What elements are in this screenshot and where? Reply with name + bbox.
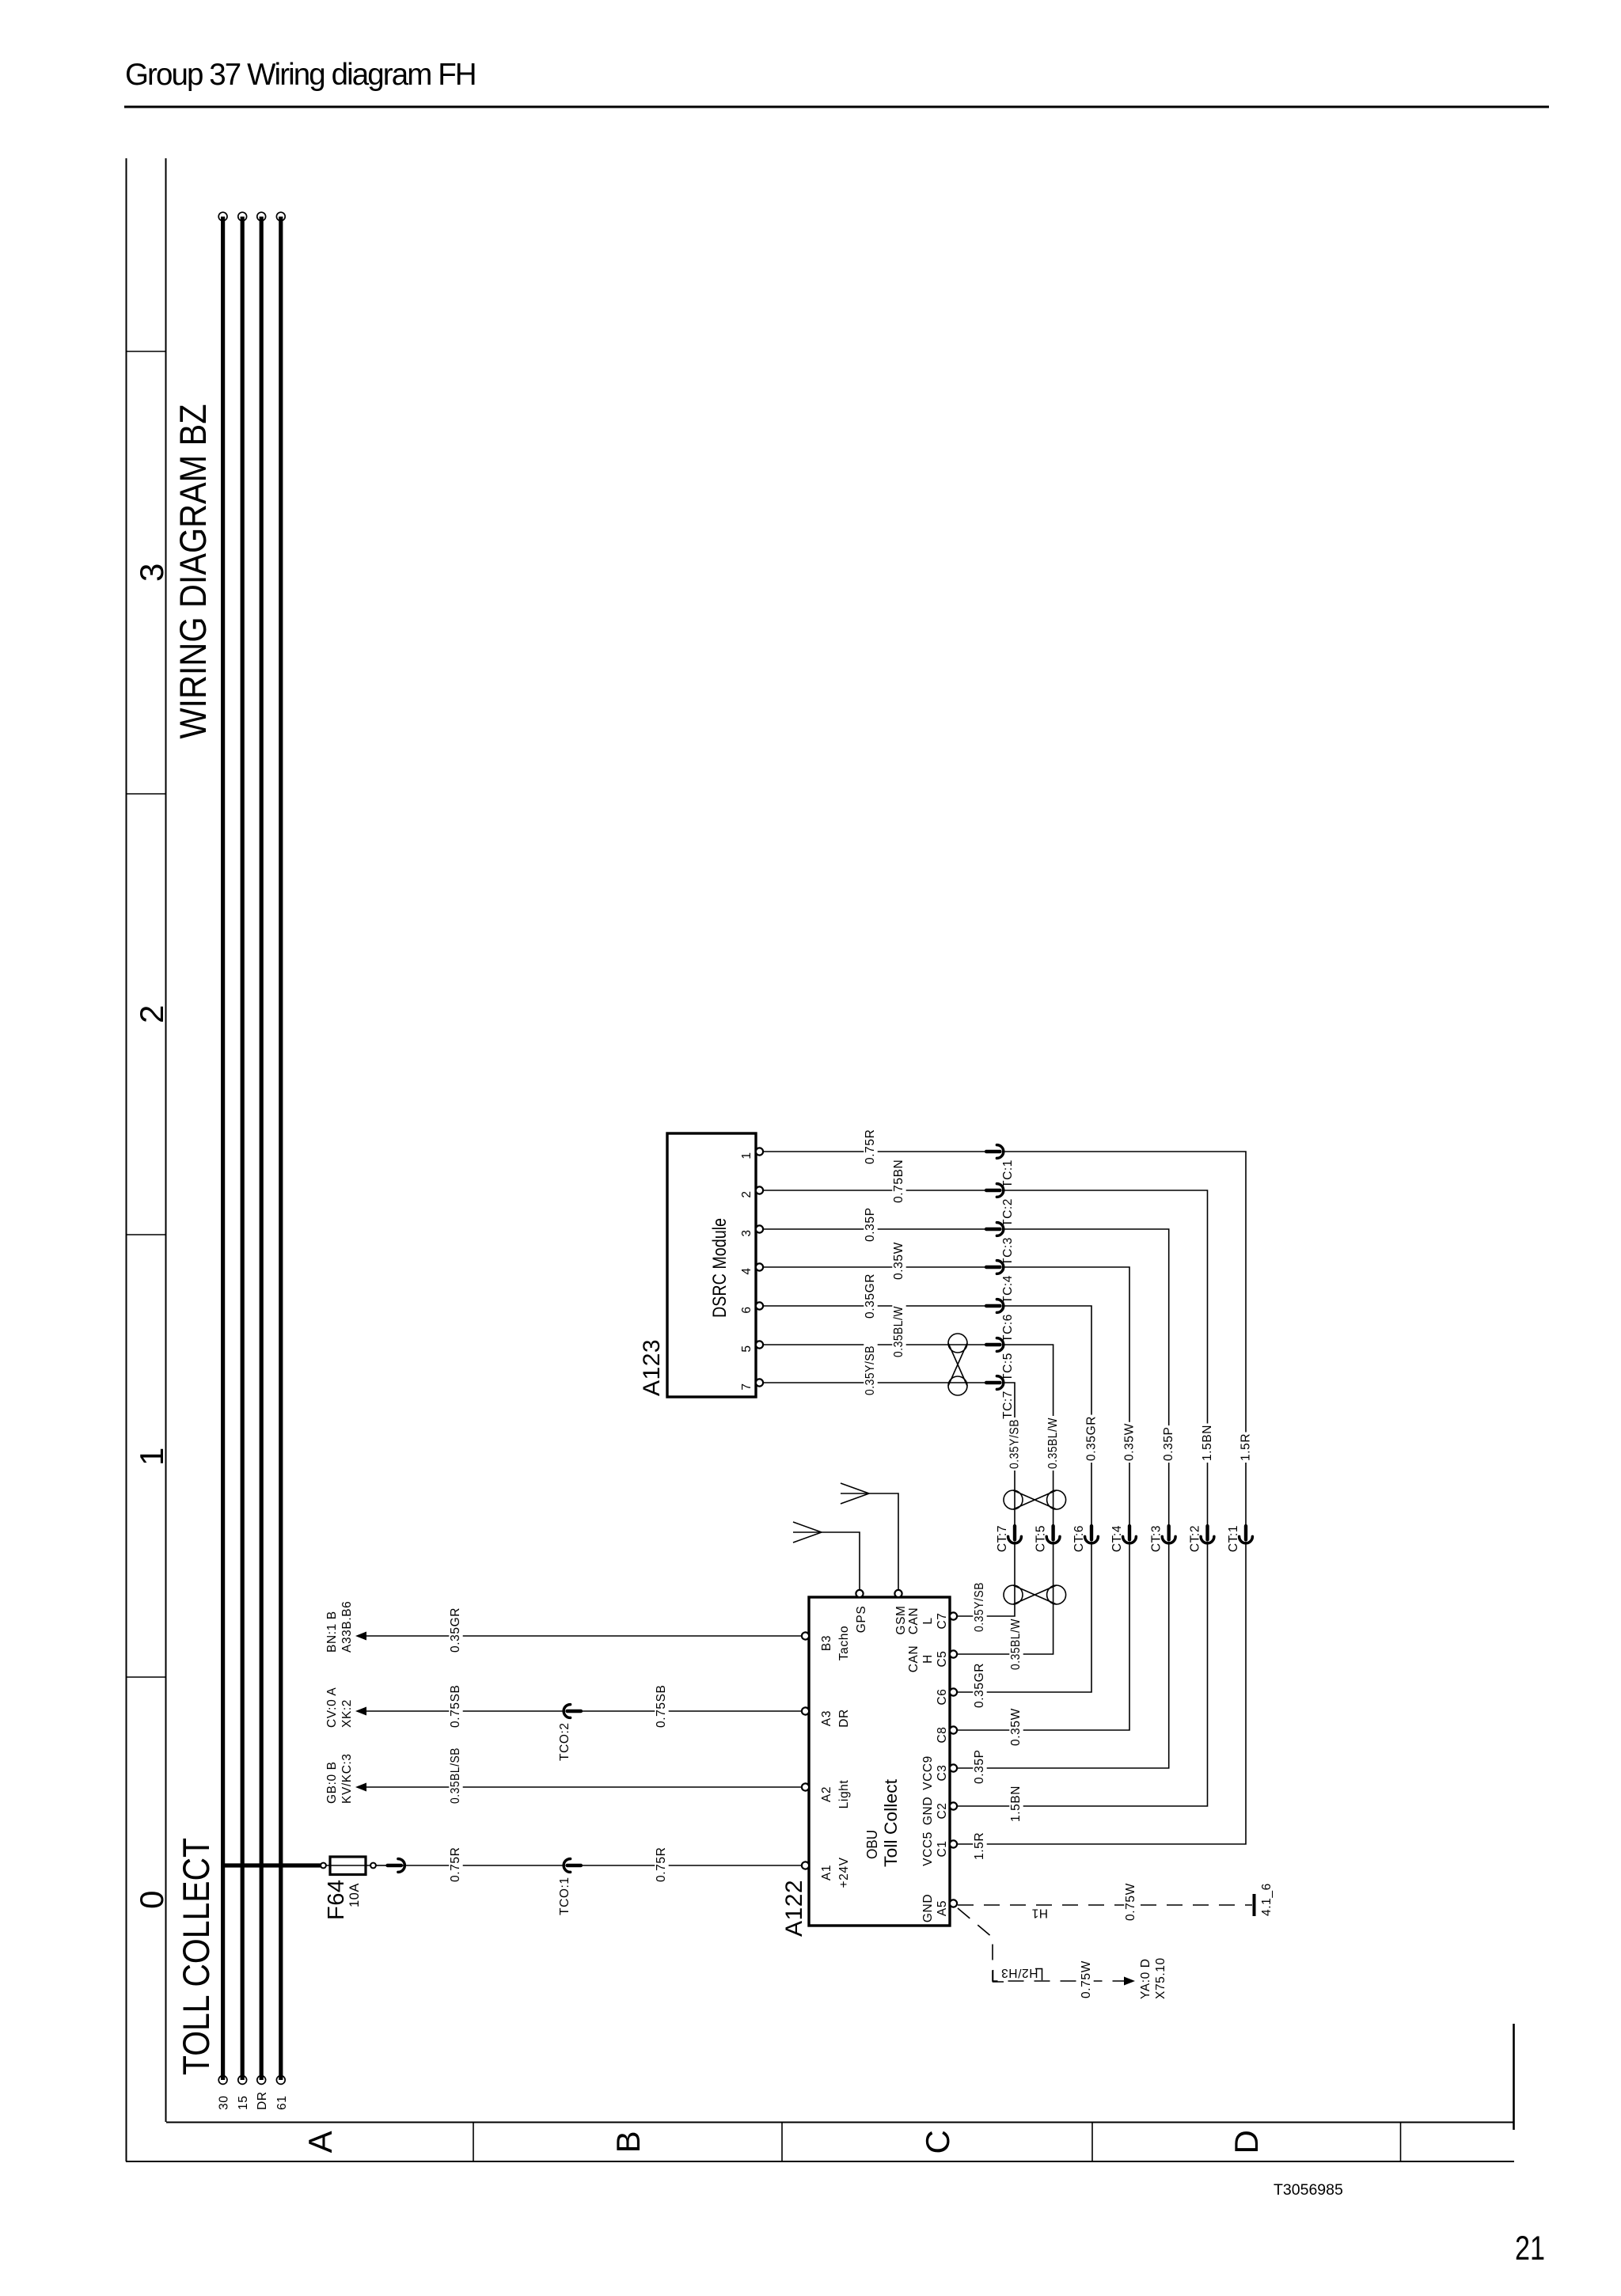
svg-text:CAN: CAN [907, 1607, 921, 1635]
pin 5 of A123 [756, 1341, 763, 1348]
bus 15 [241, 217, 245, 2080]
label 0.35W [1123, 1422, 1137, 1463]
connector TC:5 [986, 1343, 1000, 1346]
connector CT:5 [1051, 1526, 1054, 1540]
svg-text:A33B.B6: A33B.B6 [340, 1601, 354, 1653]
connector CT:3 [1167, 1526, 1170, 1540]
connector CT:1 [1244, 1526, 1247, 1540]
wire CT:1 to A122 1 [957, 1542, 1246, 1844]
label 1.5R [1239, 1433, 1253, 1463]
svg-text:C7: C7 [936, 1612, 949, 1629]
wire CT:7 to A122 7 [957, 1542, 1015, 1616]
svg-text:A1: A1 [820, 1865, 833, 1880]
connector CT:4 [1128, 1526, 1131, 1540]
svg-text:OBU: OBU [864, 1830, 880, 1859]
svg-text:BN:1 B: BN:1 B [325, 1611, 339, 1653]
wire TC:7 to CT:7 [1002, 1383, 1015, 1528]
antenna GPS [793, 1531, 822, 1533]
svg-text:0.35BL/W: 0.35BL/W [1009, 1619, 1023, 1670]
connector TC:2 [986, 1189, 1000, 1192]
svg-text:0.35BL/W: 0.35BL/W [1046, 1417, 1060, 1469]
wire CT:6 to A122 6 [957, 1542, 1091, 1692]
wire bus 30 to fuse F64 (thick) [223, 1863, 321, 1867]
ground 4.1_6 [1253, 1894, 1256, 1916]
label 0.75W [1080, 1960, 1093, 2000]
antenna GSM [841, 1493, 869, 1494]
label 0.35BL/W [892, 1304, 905, 1359]
bus DR [260, 217, 264, 2080]
svg-text:B3: B3 [820, 1635, 833, 1651]
bus 30 [221, 217, 225, 2080]
svg-text:0.35W: 0.35W [1009, 1708, 1023, 1746]
svg-text:CAN: CAN [907, 1645, 921, 1673]
label 0.35W [892, 1241, 905, 1281]
svg-text:0.35BL/SB: 0.35BL/SB [449, 1748, 462, 1804]
connector hook (fuse holder outlet) [388, 1864, 402, 1867]
connector TC:4 [986, 1266, 1000, 1269]
connector CT:7 [1013, 1526, 1016, 1540]
svg-text:A122: A122 [781, 1880, 807, 1937]
label 1.5BN [1201, 1424, 1214, 1463]
svg-text:A123: A123 [639, 1339, 665, 1396]
connector CT:2 [1205, 1526, 1209, 1540]
wire 0.75W A5 to X75.10 (dashed) [958, 1908, 1124, 1981]
pin A5 of A122 [950, 1899, 957, 1907]
svg-text:C1: C1 [936, 1840, 949, 1857]
pin C7 of A122 [950, 1612, 957, 1619]
connector arrow GB:0 B / KV/KC:3 [355, 1783, 366, 1792]
svg-text:C: C [919, 2130, 956, 2154]
svg-text:0.75SB: 0.75SB [655, 1685, 668, 1728]
svg-text:C3: C3 [936, 1764, 949, 1781]
svg-text:TCO:1: TCO:1 [558, 1877, 571, 1915]
bracket marks around H2/H3 [993, 1970, 1004, 1982]
svg-text:5: 5 [740, 1345, 754, 1352]
svg-text:D: D [1228, 2130, 1265, 2154]
label 0.35P [973, 1748, 986, 1786]
svg-text:F64: F64 [324, 1880, 349, 1920]
svg-text:4.1_6: 4.1_6 [1260, 1883, 1274, 1916]
svg-text:Light: Light [837, 1780, 851, 1809]
svg-text:H2/H3: H2/H3 [1001, 1966, 1038, 1979]
wire TC:2 to CT:2 [1002, 1190, 1208, 1528]
wire TC:3 to CT:3 [1002, 1229, 1169, 1528]
svg-text:0.75W: 0.75W [1124, 1883, 1137, 1921]
svg-text:0.35GR: 0.35GR [973, 1663, 986, 1708]
pin 3 of A123 [756, 1225, 763, 1232]
svg-text:30: 30 [218, 2096, 231, 2110]
wire TC:5 to CT:5 [1002, 1345, 1053, 1528]
svg-text:GND: GND [921, 1894, 935, 1922]
bus 61 [279, 217, 283, 2080]
label H2/H3 (rotated 180) [999, 1967, 1037, 1980]
svg-text:3: 3 [133, 563, 170, 582]
svg-text:DR: DR [256, 2091, 269, 2110]
svg-text:6: 6 [740, 1306, 754, 1313]
svg-text:TC:6: TC:6 [1001, 1314, 1015, 1342]
svg-text:0.35Y/SB: 0.35Y/SB [864, 1345, 877, 1395]
svg-text:H: H [921, 1654, 935, 1664]
svg-text:0.75R: 0.75R [655, 1847, 668, 1882]
svg-text:YA:0 D: YA:0 D [1139, 1958, 1152, 1999]
pin 2 of A123 [756, 1186, 763, 1194]
svg-text:B: B [609, 2131, 647, 2154]
svg-text:21: 21 [1515, 2230, 1545, 2268]
svg-text:CT:4: CT:4 [1110, 1525, 1124, 1552]
label 0.35P [1163, 1425, 1176, 1463]
svg-text:TC:4: TC:4 [1001, 1275, 1015, 1304]
svg-text:1: 1 [133, 1447, 170, 1466]
label 0.75SB [655, 1683, 668, 1729]
header rule [124, 106, 1549, 108]
connector arrow YA:0 D / X75.10 [1124, 1977, 1135, 1986]
wire TC:4 to CT:4 [1002, 1267, 1129, 1528]
label 0.35W [1009, 1707, 1023, 1748]
svg-text:CV:0 A: CV:0 A [325, 1687, 339, 1728]
label 0.75BN [892, 1158, 905, 1205]
twisted pair A123 pins 5/7 [948, 1334, 967, 1353]
label 0.35BL/W [1009, 1617, 1023, 1672]
svg-text:0: 0 [133, 1890, 170, 1909]
connector arrow CV:0 A / XK:2 [355, 1707, 366, 1716]
svg-text:Toll Collect: Toll Collect [881, 1779, 901, 1867]
wire 0.75R A123 pin 1 to TC:1 [763, 1151, 988, 1152]
wire 0.75R to TCO:1 [403, 1865, 564, 1866]
wire 0.35GR A123 pin 6 to TC:6 [763, 1305, 988, 1307]
svg-text:0.35P: 0.35P [1162, 1426, 1175, 1461]
wire 0.35BL/W A123 pin 5 to TC:5 [763, 1344, 988, 1345]
wire 0.75BN A123 pin 2 to TC:2 [763, 1190, 988, 1191]
svg-text:GND: GND [921, 1797, 935, 1825]
connector TCO:1 [568, 1864, 582, 1867]
svg-text:0.75SB: 0.75SB [449, 1685, 462, 1728]
svg-text:CT:3: CT:3 [1150, 1525, 1164, 1552]
svg-text:DR: DR [837, 1709, 851, 1728]
wire 0.35GR to A122 B3 [366, 1635, 805, 1637]
svg-text:2: 2 [740, 1190, 754, 1197]
wire GPS antenna [822, 1532, 860, 1592]
wire CT:4 to A122 4 [957, 1542, 1129, 1730]
svg-text:CT:5: CT:5 [1034, 1525, 1048, 1552]
svg-text:CT:7: CT:7 [996, 1525, 1009, 1552]
wire 0.75R TCO:1 to A122 A1 [579, 1865, 805, 1866]
svg-text:XK:2: XK:2 [340, 1699, 354, 1728]
svg-text:X75.10: X75.10 [1154, 1957, 1167, 1999]
pin C6 of A122 [950, 1688, 957, 1695]
svg-text:0.35GR: 0.35GR [1085, 1416, 1099, 1461]
svg-text:4: 4 [740, 1267, 754, 1274]
svg-text:0.75BN: 0.75BN [892, 1159, 905, 1203]
pin A2 Light of A122 [802, 1783, 809, 1790]
svg-text:0.35GR: 0.35GR [864, 1273, 877, 1319]
svg-text:TC:3: TC:3 [1001, 1237, 1015, 1266]
connector arrow BN:1 B / A33B.B6 [355, 1632, 366, 1641]
wire TC:1 to CT:1 [1002, 1152, 1246, 1528]
svg-text:TC:7: TC:7 [1001, 1391, 1015, 1419]
svg-text:61: 61 [275, 2096, 289, 2110]
pin C8 of A122 [950, 1726, 957, 1733]
pin A1 +24V of A122 [802, 1861, 809, 1869]
svg-text:A3: A3 [820, 1710, 833, 1726]
label 0.75W [1124, 1882, 1137, 1922]
svg-text:0.35W: 0.35W [892, 1242, 905, 1280]
wire 0.35Y/SB A123 pin 7 to TC:7 [763, 1382, 988, 1383]
label 0.35GR [1085, 1415, 1099, 1463]
svg-text:0.35Y/SB: 0.35Y/SB [1008, 1419, 1022, 1469]
svg-text:GSM: GSM [894, 1605, 908, 1634]
svg-text:0.35P: 0.35P [973, 1749, 986, 1784]
wire 0.75SB TCO:2 to A122 A3 [579, 1710, 805, 1712]
wire 0.35BL/SB to A122 A2 [366, 1786, 805, 1788]
svg-text:2: 2 [133, 1004, 170, 1023]
svg-text:TC:2: TC:2 [1001, 1198, 1015, 1227]
label 0.35BL/SB [449, 1746, 462, 1805]
connector TC:6 [986, 1304, 1000, 1307]
svg-text:Group 37 Wiring diagram FH: Group 37 Wiring diagram FH [125, 58, 476, 92]
svg-text:C6: C6 [936, 1688, 949, 1705]
fuse F64 10A [330, 1857, 366, 1875]
svg-text:A2: A2 [820, 1786, 833, 1802]
svg-text:VCC5: VCC5 [921, 1831, 935, 1866]
svg-text:0.35W: 0.35W [1123, 1423, 1137, 1461]
svg-text:DSRC Module: DSRC Module [709, 1218, 731, 1318]
svg-text:C5: C5 [936, 1650, 949, 1667]
label 0.75SB [449, 1683, 462, 1729]
svg-text:7: 7 [740, 1383, 754, 1390]
svg-text:C8: C8 [936, 1726, 949, 1743]
connector TC:3 [986, 1228, 1000, 1231]
svg-text:L: L [921, 1617, 935, 1624]
label 0.35GR [449, 1607, 462, 1654]
label 0.35P [864, 1206, 877, 1243]
pin 4 of A123 [756, 1263, 763, 1270]
svg-text:0.75R: 0.75R [864, 1129, 877, 1164]
svg-text:1: 1 [740, 1152, 754, 1159]
svg-text:A: A [302, 2131, 339, 2154]
svg-text:KV/KC:3: KV/KC:3 [340, 1753, 354, 1804]
svg-text:GPS: GPS [855, 1606, 868, 1634]
svg-text:VCC9: VCC9 [921, 1755, 935, 1790]
connector TCO:2 [568, 1710, 582, 1713]
svg-text:1.5BN: 1.5BN [1201, 1425, 1214, 1461]
wire CT:2 to A122 2 [957, 1542, 1208, 1806]
svg-text:TC:1: TC:1 [1001, 1159, 1015, 1188]
pin GPS of A122 [856, 1590, 863, 1597]
label 1.5R [973, 1831, 986, 1862]
svg-text:0.75R: 0.75R [449, 1847, 462, 1882]
label 0.35GR [973, 1662, 986, 1710]
wire GSM antenna [869, 1493, 898, 1592]
pin GSM of A122 [894, 1590, 902, 1597]
svg-text:C2: C2 [936, 1802, 949, 1819]
label 1.5BN [1009, 1785, 1023, 1824]
pin C3 of A122 [950, 1764, 957, 1771]
wire 0.35W A123 pin 4 to TC:4 [763, 1266, 988, 1268]
wire F64 to connector hook [376, 1865, 389, 1866]
wire 0.75SB to TCO:2 [366, 1710, 564, 1712]
svg-text:A5: A5 [936, 1900, 949, 1916]
connector CT:6 [1090, 1526, 1093, 1540]
svg-text:TC:5: TC:5 [1001, 1353, 1015, 1381]
svg-text:0.35Y/SB: 0.35Y/SB [973, 1582, 986, 1632]
connector TC:1 [986, 1150, 1000, 1153]
svg-text:1.5R: 1.5R [1239, 1433, 1253, 1461]
wire CT:3 to A122 3 [957, 1542, 1169, 1768]
svg-text:1.5R: 1.5R [973, 1832, 986, 1860]
label 0.35Y/SB [1008, 1417, 1022, 1471]
svg-text:0.35BL/W: 0.35BL/W [892, 1306, 905, 1357]
pin 1 of A123 [756, 1148, 763, 1155]
wire 0.35P A123 pin 3 to TC:3 [763, 1228, 988, 1230]
connector TC:7 [986, 1381, 1000, 1384]
svg-text:T3056985: T3056985 [1274, 2181, 1343, 2199]
pin 6 of A123 [756, 1302, 763, 1309]
svg-text:0.75W: 0.75W [1080, 1960, 1093, 1998]
svg-text:WIRING DIAGRAM BZ: WIRING DIAGRAM BZ [172, 404, 214, 739]
svg-text:10A: 10A [347, 1883, 362, 1907]
twisted pair CT:7/CT:5 lower [1004, 1585, 1023, 1604]
pin A3 DR of A122 [802, 1707, 809, 1714]
svg-text:Tacho: Tacho [837, 1626, 851, 1660]
ECU A122 OBU Toll Collect [809, 1597, 950, 1926]
svg-text:+24V: +24V [837, 1857, 851, 1888]
svg-text:15: 15 [237, 2096, 250, 2110]
label 0.75R [655, 1846, 668, 1884]
svg-text:0.35GR: 0.35GR [449, 1607, 462, 1653]
pin B3 Tacho of A122 [802, 1632, 809, 1639]
label 0.35Y/SB [864, 1344, 877, 1397]
wire TC:6 to CT:6 [1002, 1306, 1091, 1528]
wire CT:5 to A122 5 [957, 1542, 1053, 1654]
pin C1 of A122 [950, 1840, 957, 1847]
svg-text:H1: H1 [1031, 1907, 1048, 1920]
svg-text:CT:6: CT:6 [1072, 1525, 1086, 1552]
svg-text:CT:2: CT:2 [1189, 1525, 1202, 1552]
svg-text:GB:0 B: GB:0 B [325, 1761, 339, 1804]
wire 0.75W A5 to ground 4.1_6 (dashed) [958, 1904, 1252, 1906]
svg-text:1.5BN: 1.5BN [1009, 1786, 1023, 1822]
pin C5 of A122 [950, 1650, 957, 1657]
pin C2 of A122 [950, 1802, 957, 1809]
svg-text:TOLL COLLECT: TOLL COLLECT [175, 1838, 217, 2075]
label 0.35BL/W [1046, 1416, 1060, 1471]
svg-text:CT:1: CT:1 [1227, 1525, 1240, 1552]
twisted pair CT:7/CT:5 upper [1004, 1490, 1023, 1509]
svg-text:TCO:2: TCO:2 [558, 1722, 571, 1761]
label 0.75R [864, 1128, 877, 1166]
ECU A123 DSRC Module [667, 1133, 756, 1397]
label 0.35GR [864, 1273, 877, 1320]
svg-text:0.35P: 0.35P [864, 1207, 877, 1242]
pin 7 of A123 [756, 1379, 763, 1386]
svg-text:3: 3 [740, 1229, 754, 1236]
label 0.35Y/SB [973, 1581, 986, 1634]
label 0.75R [449, 1846, 462, 1884]
